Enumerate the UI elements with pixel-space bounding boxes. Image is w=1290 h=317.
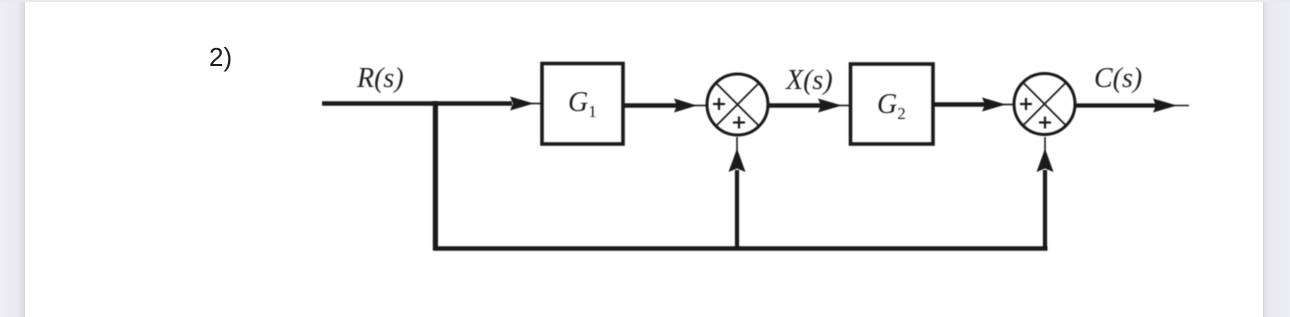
S2 plus sign bottom (1039, 117, 1051, 129)
arrowhead into G2 (818, 99, 842, 113)
arrowhead into G1 (510, 97, 534, 111)
summing junction S2 circle (1014, 74, 1075, 135)
arrowhead into summing junction S1 (674, 99, 697, 113)
block G2 (851, 64, 934, 144)
wire: S1 output (768, 103, 823, 108)
svg-text:G1: G1 (568, 87, 597, 121)
wire: thin tail into G2 (839, 105, 851, 107)
node: takeoff junction vertical branch (433, 101, 438, 250)
wire: output line C(s) (1075, 103, 1161, 107)
wire: thin tail into S2 (1003, 104, 1015, 106)
wire: feedback bottom line (433, 246, 1048, 251)
wire: thin tail into G1 (530, 103, 542, 105)
svg-text:R(s): R(s) (356, 63, 404, 94)
wire: feedback riser to S2 (1043, 170, 1047, 249)
arrowhead output (1153, 99, 1177, 113)
top gray edge (0, 0, 1290, 2)
wire: thin tail past output arrowhead (1172, 105, 1189, 107)
wire: G1 output (623, 103, 680, 108)
arrowhead up into S2 (1037, 149, 1054, 173)
summing junction S1 circle (707, 74, 768, 135)
arrowhead into summing junction S2 (982, 98, 1006, 112)
svg-text:C(s): C(s) (1094, 63, 1142, 94)
svg-text:X(s): X(s) (785, 65, 833, 96)
S1 diagonal cross (717, 84, 759, 126)
wire: feedback riser to S1 (735, 170, 739, 249)
wire: thin tail into S1 (694, 105, 707, 107)
left gray margin (0, 0, 25, 317)
wire: input line R(s) (322, 101, 512, 106)
block G1 (542, 64, 623, 145)
right gray margin (1263, 0, 1290, 317)
svg-text:G2: G2 (877, 89, 906, 123)
arrowhead up into S1 (729, 149, 746, 173)
S1 plus sign bottom (733, 117, 745, 129)
wire: G2 output (933, 102, 987, 107)
S2 diagonal cross (1024, 83, 1066, 125)
wire: thin tail up into S2 (1044, 137, 1046, 152)
S2 plus sign left (1020, 98, 1032, 110)
S1 plus sign left (713, 98, 725, 110)
problem number 2) (209, 42, 232, 73)
wire: thin tail up into S1 (736, 137, 738, 152)
